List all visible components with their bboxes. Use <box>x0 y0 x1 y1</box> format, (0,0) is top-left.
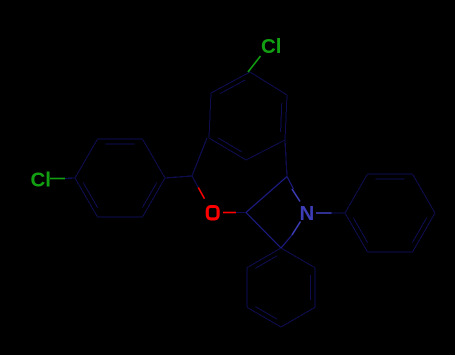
bond ring B - CH bridge <box>165 176 192 178</box>
bond O-C3 (red half) <box>223 212 236 214</box>
bond C4-N (dark half) <box>281 235 292 248</box>
svg-text:N: N <box>300 202 315 225</box>
bond N-ring D (dark half) <box>332 212 346 214</box>
benzene ring A (top chlorophenyl, tilted) <box>209 72 287 160</box>
bond N-ring D (blue half) <box>316 212 332 214</box>
bond Cl1-ring A <box>248 56 261 72</box>
bond CH-O (dark half) <box>192 176 198 188</box>
bond C3-C4 azetidine <box>246 213 281 249</box>
bond ring A - C2 <box>285 140 287 177</box>
bond O-C3 (dark half) <box>236 212 246 214</box>
bond CH-O (red half) <box>198 188 204 199</box>
bond Cl2-ring B (dark half) <box>65 177 75 180</box>
atom label O (ether oxygen), squarish glyph <box>207 207 218 219</box>
bond C2-N (blue half) <box>292 189 300 202</box>
bond C2-N (dark half) <box>287 177 294 190</box>
bond CH - ring A <box>192 138 207 176</box>
benzene ring B (left 4-chlorophenyl) <box>75 139 165 217</box>
svg-text:Cl: Cl <box>261 35 282 58</box>
benzene ring D (N-phenyl) <box>345 174 435 252</box>
svg-text:Cl: Cl <box>31 169 52 192</box>
bond Cl2-ring B (green half) <box>50 178 65 180</box>
bond C3-C2 azetidine <box>246 177 287 213</box>
benzene ring C (bottom phenyl) <box>247 248 315 327</box>
bond C4-N (blue half) <box>292 222 301 236</box>
